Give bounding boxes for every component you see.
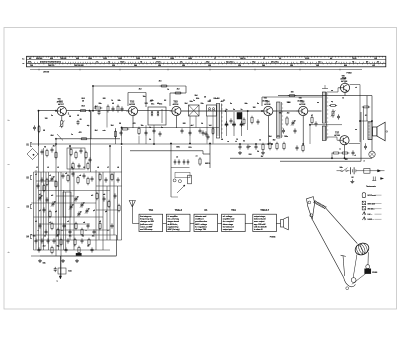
svg-text:with 2x AC128: with 2x AC128 — [254, 225, 267, 228]
svg-text:5k6: 5k6 — [195, 95, 198, 97]
svg-text:rectifier, it: rectifier, it — [195, 218, 204, 221]
svg-text:25m: 25m — [252, 62, 256, 64]
svg-text:i.f. amplifier: i.f. amplifier — [168, 215, 178, 218]
svg-text:L8: L8 — [117, 167, 119, 169]
svg-text:ay: ay — [331, 101, 333, 103]
svg-text:o3: o3 — [67, 221, 69, 223]
svg-text:10k: 10k — [279, 113, 282, 115]
svg-text:100: 100 — [253, 107, 256, 109]
svg-text:balanced pair: balanced pair — [254, 218, 266, 221]
svg-text:TS6: TS6 — [341, 76, 344, 78]
svg-text:41: 41 — [35, 220, 37, 223]
svg-text:47: 47 — [311, 114, 313, 117]
svg-text:40: 40 — [82, 100, 84, 103]
svg-text:output pair: output pair — [223, 228, 233, 231]
svg-text:tr1: tr1 — [39, 193, 41, 196]
svg-text:4n7: 4n7 — [191, 124, 194, 127]
svg-text:5k6: 5k6 — [185, 103, 188, 105]
svg-text:1k: 1k — [259, 140, 261, 142]
svg-text:detector and: detector and — [195, 215, 207, 218]
svg-text:40: 40 — [204, 96, 206, 99]
svg-text:30: 30 — [87, 246, 89, 248]
svg-text:L2: L2 — [47, 167, 49, 169]
svg-text:of stage TS2: of stage TS2 — [195, 228, 207, 231]
svg-text:64: 64 — [221, 138, 223, 141]
svg-text:88: 88 — [43, 130, 45, 132]
svg-text:AGC (1st stg): AGC (1st stg) — [168, 228, 180, 231]
svg-text:2k7: 2k7 — [261, 156, 264, 158]
svg-text:0.1: 0.1 — [365, 115, 367, 117]
svg-text:TS1: TS1 — [57, 99, 60, 101]
svg-text:10n: 10n — [33, 236, 36, 238]
svg-text:and LW recep.: and LW recep. — [140, 228, 153, 231]
svg-text:452: 452 — [217, 97, 220, 100]
svg-text:40: 40 — [112, 102, 114, 105]
svg-text:L6: L6 — [97, 167, 99, 169]
svg-text:c3: c3 — [65, 173, 67, 175]
svg-text:8k2: 8k2 — [273, 140, 276, 142]
svg-text:AC126: AC126 — [299, 103, 306, 106]
svg-text:19m 16m: 19m 16m — [271, 62, 279, 64]
svg-text:270: 270 — [277, 136, 280, 138]
svg-text:Tastensatz: Tastensatz — [366, 185, 377, 188]
svg-text:c1: c1 — [35, 174, 37, 176]
svg-text:AC128: AC128 — [340, 77, 345, 80]
svg-text:frequency chg: frequency chg — [140, 218, 154, 221]
svg-text:AF117: AF117 — [57, 100, 62, 103]
svg-text:AF116: AF116 — [173, 103, 180, 106]
svg-text:5u: 5u — [241, 109, 243, 111]
svg-text:UKW ---: UKW --- — [368, 219, 375, 221]
svg-text:10n: 10n — [92, 236, 95, 238]
svg-text:changer on SW: changer on SW — [140, 220, 154, 223]
svg-text:p2: p2 — [55, 211, 57, 213]
svg-text:40: 40 — [157, 102, 159, 105]
svg-text:o5: o5 — [99, 221, 101, 223]
svg-text:L1: L1 — [36, 167, 38, 169]
svg-text:2k: 2k — [44, 236, 46, 238]
svg-text:3k9: 3k9 — [111, 125, 114, 127]
svg-text:at 452 kc/s ;: at 452 kc/s ; — [168, 223, 179, 226]
svg-text:TS5-6-7: TS5-6-7 — [260, 208, 269, 212]
svg-text:a.f. voltage: a.f. voltage — [223, 215, 233, 218]
svg-text:as: as — [331, 90, 333, 92]
svg-text:2n2: 2n2 — [43, 246, 46, 248]
svg-text:180 190 200: 180 190 200 — [74, 65, 84, 67]
svg-text:L5: L5 — [83, 167, 85, 169]
svg-text:max. output: max. output — [254, 220, 265, 223]
svg-text:130: 130 — [45, 118, 48, 120]
svg-text:S8.2: S8.2 — [81, 106, 84, 108]
svg-text:provides also: provides also — [195, 220, 208, 223]
svg-text:driver stage: driver stage — [223, 223, 234, 226]
svg-text:amplifier and: amplifier and — [223, 218, 235, 221]
svg-text:1/78: 1/78 — [144, 103, 147, 105]
svg-text:for balanced: for balanced — [223, 225, 235, 228]
svg-text:102: 102 — [345, 159, 348, 161]
svg-text:TS2+3: TS2+3 — [175, 208, 183, 212]
svg-text:470: 470 — [133, 122, 136, 125]
svg-text:AC128: AC128 — [341, 80, 348, 83]
svg-text:L7: L7 — [107, 167, 109, 169]
svg-text:AC126: AC126 — [264, 103, 271, 106]
svg-text:in class B: in class B — [254, 229, 263, 231]
svg-text:520 560: 520 560 — [36, 58, 43, 60]
svg-text:2k2: 2k2 — [177, 89, 180, 91]
svg-text:TS4: TS4 — [231, 208, 236, 212]
svg-text:25: 25 — [77, 115, 79, 117]
svg-text:TS1: TS1 — [149, 208, 154, 212]
svg-text:output stage,: output stage, — [254, 215, 266, 218]
svg-text:TS5: TS5 — [298, 98, 301, 100]
svg-text:LW: LW — [372, 65, 375, 67]
svg-text:1k: 1k — [342, 98, 344, 100]
svg-text:AF116: AF116 — [129, 103, 136, 106]
svg-text:150: 150 — [291, 92, 294, 94]
svg-text:4k7: 4k7 — [53, 145, 56, 148]
svg-text:AGC- voltage: AGC- voltage — [195, 223, 208, 226]
svg-text:L3: L3 — [57, 167, 59, 169]
svg-text:220: 220 — [103, 98, 106, 100]
svg-text:1st + 2nd stg: 1st + 2nd stg — [168, 218, 180, 221]
svg-text:2k2: 2k2 — [287, 113, 290, 115]
svg-text:6k8: 6k8 — [51, 135, 54, 137]
svg-text:1k8: 1k8 — [269, 136, 272, 138]
svg-text:2k: 2k — [82, 236, 84, 238]
svg-text:453: 453 — [221, 100, 224, 103]
svg-text:AC126: AC126 — [262, 99, 267, 102]
svg-text:tr3: tr3 — [91, 194, 93, 197]
svg-text:120: 120 — [288, 102, 291, 104]
svg-text:700 800: 700 800 — [60, 58, 67, 60]
svg-text:8u: 8u — [226, 109, 228, 111]
svg-text:first stage ac: first stage ac — [140, 215, 152, 218]
svg-text:SW R.: SW R. — [205, 163, 211, 165]
svg-text:SW 49m: SW 49m — [368, 208, 375, 211]
svg-text:220: 220 — [56, 236, 59, 238]
svg-text:49m: 49m — [206, 61, 210, 64]
svg-text:MW / AM: MW / AM — [368, 202, 376, 205]
svg-text:25: 25 — [209, 100, 211, 102]
svg-text:220: 220 — [183, 123, 186, 125]
svg-text:for regulation: for regulation — [195, 225, 208, 228]
svg-text:80: 80 — [44, 147, 46, 149]
svg-text:2k2: 2k2 — [95, 130, 98, 132]
svg-text:AF117: AF117 — [58, 103, 65, 106]
svg-text:41m 31m: 41m 31m — [226, 61, 234, 64]
svg-text:F1904: F1904 — [270, 236, 276, 239]
svg-text:c2: c2 — [49, 175, 51, 177]
svg-text:470: 470 — [79, 131, 82, 134]
svg-text:4k7: 4k7 — [95, 105, 98, 108]
svg-text:510: 510 — [249, 154, 252, 156]
svg-text:o2: o2 — [49, 222, 51, 224]
svg-text:regulated by: regulated by — [168, 225, 180, 228]
svg-text:2k2: 2k2 — [139, 89, 142, 91]
svg-text:160 170: 160 170 — [48, 65, 55, 67]
svg-text:90: 90 — [69, 116, 71, 118]
svg-text:ic: ic — [249, 146, 250, 148]
svg-text:10n: 10n — [69, 236, 72, 238]
svg-text:AC126: AC126 — [297, 99, 302, 102]
svg-text:mixer, on MW: mixer, on MW — [140, 225, 152, 228]
svg-text:LW ---: LW --- — [368, 214, 373, 216]
svg-text:8u: 8u — [233, 109, 235, 111]
svg-text:LW 150: LW 150 — [43, 72, 50, 74]
svg-text:1n5: 1n5 — [209, 125, 212, 127]
svg-text:5k: 5k — [243, 141, 245, 143]
svg-text:S2: S2 — [164, 100, 166, 102]
svg-text:50: 50 — [119, 123, 121, 125]
svg-text:stages tuned: stages tuned — [168, 220, 180, 223]
svg-text:2k1: 2k1 — [159, 81, 162, 83]
svg-text:tr2: tr2 — [51, 194, 53, 197]
svg-text:p1: p1 — [39, 210, 41, 212]
svg-text:p3: p3 — [93, 210, 95, 212]
